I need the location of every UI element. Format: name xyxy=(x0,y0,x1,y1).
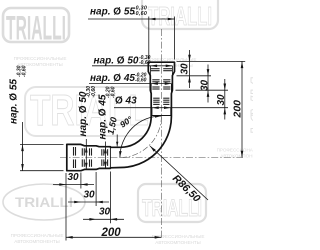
watermark top-right cut framed logo xyxy=(142,0,218,31)
svg-text:TRIALLI: TRIALLI xyxy=(15,194,73,210)
dim nar d45: text xyxy=(90,73,147,85)
svg-text:ПРОФЕССИОНАЛЬНЫЕ: ПРОФЕССИОНАЛЬНЫЕ xyxy=(217,148,253,153)
svg-text:нар. Ø 55: нар. Ø 55 xyxy=(90,7,135,18)
watermark right-edge letters xyxy=(217,76,272,159)
dim 200 right xyxy=(241,61,243,157)
dim nar d45: dim line with arrows + inner extension lines xyxy=(89,84,171,94)
dim nar d55 top: text xyxy=(90,6,147,18)
svg-text:нар. Ø 55: нар. Ø 55 xyxy=(9,79,20,124)
pipe body white fill xyxy=(67,62,175,171)
dim 200 bottom xyxy=(66,236,161,238)
pipe outline xyxy=(67,62,175,171)
dim 30 #1 right xyxy=(189,50,191,88)
svg-text:30: 30 xyxy=(99,207,111,218)
watermark small text upper-left xyxy=(14,56,67,67)
bottom ext line mouth face xyxy=(65,173,67,241)
left dim d50 leader with arrows xyxy=(85,139,87,169)
right ext line top (to 200 dim) xyxy=(177,60,246,62)
svg-text:-0,60: -0,60 xyxy=(135,78,147,84)
svg-text:АВТОКОМПОНЕНТЫ: АВТОКОМПОНЕНТЫ xyxy=(14,239,59,244)
dim nar d50: dim line with arrows + inner extension lines xyxy=(92,66,172,76)
dim 30 #3 right xyxy=(224,79,226,120)
dim nar d50: text xyxy=(94,55,151,67)
left dim d55: ext lines from mouth xyxy=(20,122,64,171)
svg-text:30: 30 xyxy=(199,79,210,91)
svg-text:нар. Ø 45: нар. Ø 45 xyxy=(90,73,135,84)
dim d43: dim line across pipe, doubles as extension for right 30 dim xyxy=(114,108,228,116)
centerline vertical (pipe axis) xyxy=(160,29,162,238)
left label nar d55 (rotated) xyxy=(9,65,28,124)
slot bands vertical pipe xyxy=(151,69,172,105)
svg-text:TRIALLI: TRIALLI xyxy=(148,1,212,31)
svg-text:ПРОФЕССИОНАЛЬНЫЕ: ПРОФЕССИОНАЛЬНЫЕ xyxy=(152,234,205,239)
svg-text:TRIALLI: TRIALLI xyxy=(6,10,66,48)
svg-text:АВТОКОМПОНЕНТЫ: АВТОКОМПОНЕНТЫ xyxy=(155,240,200,245)
svg-text:-0,60: -0,60 xyxy=(110,86,116,98)
svg-text:нар. Ø 50: нар. Ø 50 xyxy=(94,56,139,67)
bottom ext line step3 xyxy=(109,172,111,224)
watermark small text bottom-left xyxy=(11,233,64,244)
dim 30 #2 right xyxy=(207,65,209,103)
svg-text:ИАЛ: ИАЛ xyxy=(245,76,253,134)
bottom ext line step2 xyxy=(95,172,97,206)
dim 30 #2 bottom xyxy=(68,201,109,203)
svg-text:-0,60: -0,60 xyxy=(139,60,151,66)
R86,50 leader xyxy=(150,146,208,200)
watermark small text bottom-right xyxy=(152,234,205,245)
watermark small text upper-right xyxy=(144,57,197,68)
svg-text:ПРОФЕССИОНАЛЬНЫЕ: ПРОФЕССИОНАЛЬНЫЕ xyxy=(14,56,67,61)
leader 1,50 xyxy=(116,135,118,147)
svg-text:ПРОФЕССИОНАЛЬНЫЕ: ПРОФЕССИОНАЛЬНЫЕ xyxy=(11,233,64,238)
svg-text:-0,60: -0,60 xyxy=(22,65,28,77)
watermark big center outline word xyxy=(25,86,164,136)
bottom ext line step1 xyxy=(80,173,82,189)
watermark top-left framed TRIALLI logo xyxy=(3,8,69,48)
svg-text:30: 30 xyxy=(179,63,190,75)
left dim d45 leader with arrows xyxy=(105,142,107,169)
right ext line step1 xyxy=(177,75,212,77)
right ext line step2 xyxy=(176,89,229,91)
dim 30 #1 bottom xyxy=(53,184,94,186)
step line horizontal pipe (d45->d43) xyxy=(109,147,111,169)
step line vertical pipe (d45->d43) xyxy=(151,115,171,117)
left label nar d45 (rotated) xyxy=(97,86,116,139)
watermark bottom-right framed logo xyxy=(138,184,206,222)
centerline bend arc xyxy=(120,116,161,158)
svg-text:-0,60: -0,60 xyxy=(134,11,148,17)
dim 30 #3 bottom xyxy=(83,218,124,220)
left label nar d50 (rotated) xyxy=(78,86,97,137)
svg-text:30: 30 xyxy=(84,189,96,200)
svg-text:200: 200 xyxy=(231,100,243,119)
svg-text:Ø 43: Ø 43 xyxy=(115,96,137,107)
svg-text:30: 30 xyxy=(216,94,227,106)
watermark bottom-left oval logo xyxy=(3,184,85,220)
centerline horizontal (pipe axis) xyxy=(60,157,243,159)
svg-text:30: 30 xyxy=(68,172,80,183)
svg-text:200: 200 xyxy=(101,227,122,239)
90 deg arc with arrows xyxy=(120,116,161,158)
dim nar d55 top: dim line with arrows xyxy=(88,17,175,60)
slot bands horizontal pipe xyxy=(74,147,108,168)
svg-text:-0,60: -0,60 xyxy=(91,86,97,98)
